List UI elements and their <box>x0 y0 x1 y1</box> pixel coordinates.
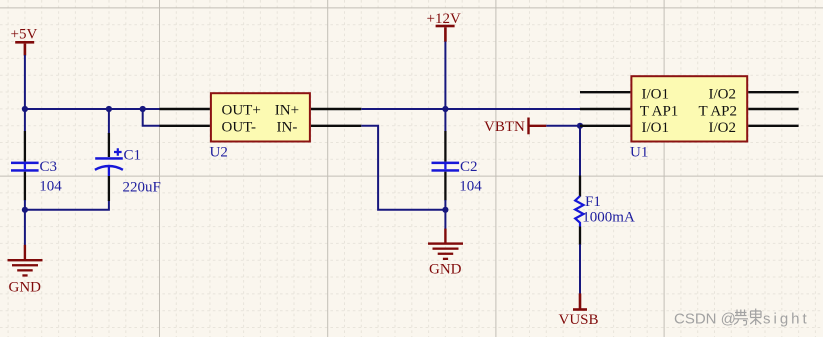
svg-text:U2: U2 <box>210 145 228 161</box>
pin I/O1 (bottom left) <box>580 125 630 127</box>
wire +5V rail horizontal <box>24 108 160 110</box>
junction at C1 top <box>106 106 112 112</box>
wire IN- down and right to C2 bottom <box>361 126 445 210</box>
pin OUT+ <box>160 108 210 110</box>
wire junction down to fuse <box>579 126 581 176</box>
capacitor C1 (polarized) <box>95 109 123 201</box>
svg-text:VBTN: VBTN <box>484 119 525 135</box>
svg-text:C1: C1 <box>124 148 142 164</box>
pin T AP2 (middle right) <box>748 108 798 110</box>
wire C3 bottom to GND rail <box>24 200 26 245</box>
body U2 <box>211 93 310 141</box>
wire bottom rail C3 to C1 <box>25 200 109 210</box>
IC U1 <box>580 76 799 160</box>
watermark CSDN @舞果sight <box>674 309 810 328</box>
IC U2 DC-DC module <box>160 93 362 160</box>
capacitor C3 <box>11 131 39 201</box>
wire C2 bottom to GND <box>444 200 446 229</box>
ground GND (middle) <box>428 229 463 278</box>
junction VBTN node <box>577 123 583 129</box>
wire +12V vertical <box>444 42 446 132</box>
ground GND (left) <box>8 245 43 296</box>
wire IN+ to +12V node and U1 <box>361 108 580 110</box>
wire +5V vertical to C3 <box>24 55 26 131</box>
pin OUT- <box>160 125 210 127</box>
svg-text:CSDN @: CSDN @ <box>674 311 736 328</box>
svg-text:GND: GND <box>9 280 42 296</box>
pin IN+ <box>311 108 361 110</box>
wire fuse to VUSB <box>579 244 581 294</box>
svg-text:T AP1: T AP1 <box>640 103 679 119</box>
svg-text:I/O1: I/O1 <box>642 87 670 103</box>
pin T AP1 (middle left) <box>580 108 630 110</box>
svg-text:I/O2: I/O2 <box>709 87 737 103</box>
svg-text:sight: sight <box>763 311 810 328</box>
junction at OUT- branch <box>140 106 146 112</box>
net label VBTN <box>484 118 546 135</box>
wire OUT- branch corner <box>143 109 160 126</box>
svg-text:GND: GND <box>429 262 462 278</box>
svg-text:T AP2: T AP2 <box>699 103 738 119</box>
junction C2 bottom <box>442 207 448 213</box>
power port +12V <box>427 11 461 42</box>
pin I/O2 (bottom right) <box>748 125 798 127</box>
junction at GND rail <box>22 207 28 213</box>
junction at +5V/C3 <box>22 106 28 112</box>
body U1 <box>631 76 747 141</box>
svg-text:104: 104 <box>39 178 62 194</box>
svg-text:OUT+: OUT+ <box>222 103 261 119</box>
svg-text:C3: C3 <box>40 159 58 175</box>
svg-text:C2: C2 <box>460 159 478 175</box>
wire VBTN to junction <box>546 125 580 127</box>
pin IN- <box>311 125 361 127</box>
svg-text:IN-: IN- <box>277 119 298 135</box>
power port VUSB <box>559 293 599 328</box>
pin I/O2 (top right) <box>748 91 798 93</box>
svg-text:1000mA: 1000mA <box>582 209 635 225</box>
svg-text:OUT-: OUT- <box>222 119 256 135</box>
svg-text:VUSB: VUSB <box>559 312 599 328</box>
svg-text:I/O2: I/O2 <box>709 120 737 136</box>
power port +5V <box>11 27 38 56</box>
svg-text:I/O1: I/O1 <box>642 120 670 136</box>
capacitor C2 <box>432 131 460 201</box>
svg-text:104: 104 <box>459 178 482 194</box>
svg-text:IN+: IN+ <box>275 103 299 119</box>
svg-text:+12V: +12V <box>427 11 461 27</box>
svg-text:F1: F1 <box>585 194 601 210</box>
pin I/O1 (top left) <box>580 91 630 93</box>
svg-text:+5V: +5V <box>11 27 38 43</box>
svg-text:U1: U1 <box>630 145 648 161</box>
fuse F1 <box>575 176 583 246</box>
svg-text:220uF: 220uF <box>123 180 161 196</box>
junction +12V node <box>442 106 448 112</box>
